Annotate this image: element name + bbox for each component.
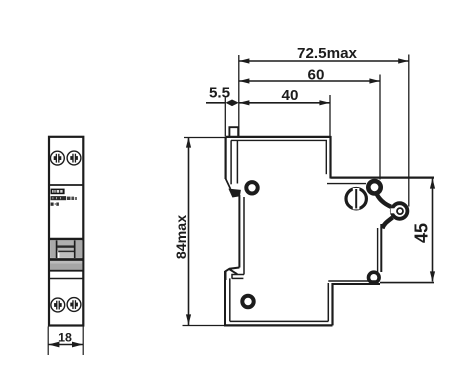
body top edge outer xyxy=(226,136,331,138)
switch recess bottom line xyxy=(49,258,83,261)
switch recess top line xyxy=(49,238,83,241)
ext line x380 (60) xyxy=(379,75,381,180)
latch pivot outer xyxy=(392,203,408,219)
svg-text:60: 60 xyxy=(308,67,325,84)
din clip lower notch xyxy=(226,268,240,281)
dim 60 line xyxy=(239,80,380,82)
handle side lines xyxy=(56,240,58,258)
din clip upper tooth xyxy=(226,179,231,189)
svg-text:84max: 84max xyxy=(174,215,190,259)
latch arm upper xyxy=(377,194,391,207)
left wall outer upper xyxy=(225,137,227,179)
latch pivot inner ring xyxy=(397,208,403,214)
45 ext line bottom xyxy=(380,282,434,284)
ext line x238.8 (front face) xyxy=(238,55,240,137)
left wall outer lower xyxy=(224,271,226,325)
terminal screw bottom-right xyxy=(67,298,81,312)
toggle handle xyxy=(57,240,74,258)
ext line x225 (5.5 left) xyxy=(224,98,226,137)
step outer vertical xyxy=(329,136,331,179)
dim 45 line xyxy=(432,179,434,282)
din clip tooth fill xyxy=(228,189,241,198)
ext line x408.8 (72.5) xyxy=(408,55,410,207)
back lower corner circle xyxy=(369,272,380,283)
18 dim extension line right xyxy=(82,327,84,356)
step inner vertical xyxy=(325,140,327,174)
back wall outer xyxy=(380,224,382,272)
dim 40 line xyxy=(239,102,330,104)
18 dim line xyxy=(48,344,83,346)
top-right hook circle xyxy=(368,181,380,193)
line under grey band xyxy=(49,270,83,272)
dim 5.5 tail line xyxy=(206,102,225,104)
bottom edge outer xyxy=(224,324,333,326)
dim 84max line xyxy=(188,138,190,326)
latch arm lower xyxy=(382,218,392,229)
switch recess left grey block xyxy=(50,240,56,258)
front view body outline xyxy=(49,137,83,326)
terminal screw bottom-left xyxy=(51,298,65,312)
left wall outer mid xyxy=(238,195,240,268)
terminal screw top-right xyxy=(67,151,81,165)
84max ext line top xyxy=(184,137,227,139)
svg-text:18: 18 xyxy=(58,331,72,345)
bottom-right edge inner xyxy=(328,280,377,282)
svg-text:45: 45 xyxy=(412,223,432,243)
grey band lower xyxy=(50,263,82,270)
grey band upper xyxy=(50,261,82,263)
84max ext line bottom xyxy=(183,325,227,327)
brand logo block xyxy=(51,189,65,195)
bottom-right edge outer xyxy=(333,283,381,285)
left wall inner lower xyxy=(229,278,231,321)
top mounting tab xyxy=(229,127,238,136)
svg-text:40: 40 xyxy=(282,87,299,104)
switch recess right grey block xyxy=(76,240,83,258)
back wall inner xyxy=(377,228,379,272)
bottom step inner vertical xyxy=(327,283,329,321)
left wall inner line 2 xyxy=(236,140,238,183)
left wall inner mid xyxy=(243,197,245,275)
dim 5.5 diamond arrows xyxy=(225,100,238,107)
svg-text:72.5max: 72.5max xyxy=(297,45,358,62)
45 ext line top / body top-right edge xyxy=(331,177,435,179)
18 dim arrow right xyxy=(72,342,83,348)
bottom step outer vertical xyxy=(331,283,333,325)
svg-text:5.5: 5.5 xyxy=(209,84,231,101)
model text line xyxy=(51,196,77,200)
rating text line xyxy=(51,203,59,206)
terminal screw top-left xyxy=(51,151,65,165)
18 dim arrow left xyxy=(48,342,59,348)
handle screw head xyxy=(346,188,366,209)
line under white band xyxy=(49,278,83,280)
rivet circle upper xyxy=(246,182,257,193)
label divider line xyxy=(49,184,83,186)
latch pivot slot xyxy=(391,208,396,213)
rivet circle lower xyxy=(242,296,253,307)
18 dim extension line left xyxy=(47,327,49,356)
bottom edge inner xyxy=(230,320,328,322)
dim 72.5max line xyxy=(239,60,409,62)
ext line x330 (40) xyxy=(329,95,331,136)
left wall inner line 1 xyxy=(230,140,232,184)
top-right edge inner xyxy=(327,183,366,185)
body top edge inner xyxy=(231,139,327,141)
